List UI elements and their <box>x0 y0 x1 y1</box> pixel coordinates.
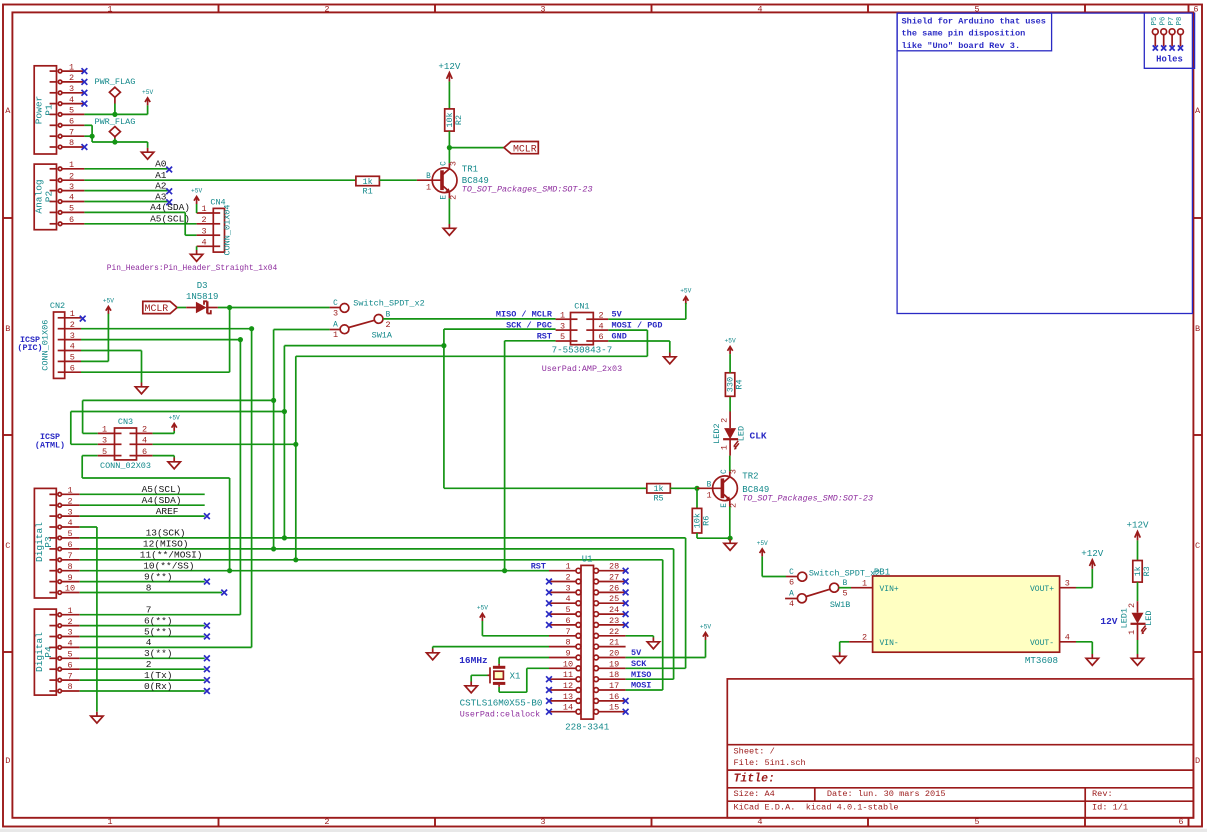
wire junction down to R6 <box>696 488 698 508</box>
wire CN2 pin4 to ground <box>81 350 142 352</box>
svg-text:5: 5 <box>560 332 565 342</box>
svg-text:CLK: CLK <box>750 430 767 441</box>
junction D3 / CN2 pin6 <box>227 305 232 310</box>
wire junction to TR1 collector <box>448 148 450 164</box>
resistor R1 <box>356 176 380 185</box>
wire A4(SDA) to CN4 pin3 <box>84 211 185 213</box>
svg-text:P6: P6 <box>1159 17 1167 25</box>
wire R1 to TR1 base <box>379 179 417 181</box>
junction CN3 pin3 / v5 <box>282 409 287 414</box>
svg-text:CONN_01X04: CONN_01X04 <box>223 204 233 255</box>
svg-text:KiCad E.D.A. kicad 4.0.1-stab: KiCad E.D.A. kicad 4.0.1-stable <box>734 803 899 813</box>
svg-text:1: 1 <box>706 491 711 501</box>
connector CN4 pins 1-4 <box>213 212 220 214</box>
svg-text:A: A <box>333 322 338 330</box>
wire CN2 pin6 to MCLR net <box>81 371 230 373</box>
power +5V (U1 pin7) <box>480 614 485 622</box>
svg-text:E: E <box>441 195 449 200</box>
wire junction to MCLR label <box>449 147 504 149</box>
junction RST vertical / U1 pin1 wire <box>502 568 507 573</box>
wire U1 pin17 MOSI up to 11(MOSI) line <box>626 689 663 691</box>
svg-text:9: 9 <box>565 649 570 659</box>
connector P3 (Digital) body <box>34 488 56 598</box>
svg-text:Date: lun. 30 mars 2015: Date: lun. 30 mars 2015 <box>827 789 946 799</box>
svg-text:Switch_SPDT_x2: Switch_SPDT_x2 <box>809 568 880 578</box>
wire TR2 emitter to ground <box>729 507 731 539</box>
svg-text:(PIC): (PIC) <box>17 343 42 353</box>
svg-text:5: 5 <box>70 353 75 363</box>
junction R2/TR1/MCLR <box>447 145 452 150</box>
no-connect X 5(**) <box>204 634 210 640</box>
wire MCLR label to D3 <box>177 307 186 309</box>
svg-text:1: 1 <box>333 330 338 340</box>
svg-text:C: C <box>441 161 449 166</box>
svg-text:2: 2 <box>142 425 147 435</box>
svg-text:D: D <box>1195 756 1200 766</box>
svg-text:R2: R2 <box>454 115 464 125</box>
power +5V (CN3) <box>172 424 177 432</box>
svg-text:5V: 5V <box>631 648 642 658</box>
svg-text:TO_SOT_Packages_SMD:SOT-23: TO_SOT_Packages_SMD:SOT-23 <box>742 493 873 503</box>
svg-text:13: 13 <box>563 692 573 702</box>
wire CN3 pin6 to ground <box>153 455 175 457</box>
power +5V (SW1B) <box>760 549 765 557</box>
svg-text:13(SCK): 13(SCK) <box>146 528 186 539</box>
svg-text:A1: A1 <box>155 170 167 181</box>
svg-text:MCLR: MCLR <box>513 143 537 154</box>
no-connect X 8 <box>221 590 227 596</box>
svg-text:+12V: +12V <box>1126 520 1149 531</box>
wire P3 pin4 to ground <box>80 526 97 528</box>
svg-text:6: 6 <box>67 540 72 550</box>
svg-text:6: 6 <box>565 616 570 626</box>
wire A1 to R1 <box>84 179 356 181</box>
svg-text:6: 6 <box>69 215 74 225</box>
note text box <box>897 13 1052 51</box>
svg-text:Shield for Arduino that uses: Shield for Arduino that uses <box>902 16 1046 26</box>
svg-text:1(Tx): 1(Tx) <box>144 670 173 681</box>
wire v2 down to P4 pin1 <box>239 340 241 615</box>
svg-text:5: 5 <box>69 106 74 116</box>
svg-text:Id: 1/1: Id: 1/1 <box>1092 803 1128 813</box>
power +5V (CN4 pin1) <box>194 197 199 205</box>
wire P4 pin4 to v3 <box>80 646 252 648</box>
junction P1 pin6/7 <box>90 134 95 139</box>
wire CN1 pin2 to +5V <box>608 318 686 320</box>
no-connect X 3(**) <box>204 655 210 661</box>
svg-text:TR2: TR2 <box>742 472 758 482</box>
svg-text:1N5819: 1N5819 <box>186 292 218 302</box>
svg-text:4: 4 <box>1065 633 1070 643</box>
svg-text:7-5530843-7: 7-5530843-7 <box>552 344 613 355</box>
resistor R3 <box>1133 561 1142 583</box>
ground (CN4) <box>190 250 202 261</box>
wire SCK junction up to CN1 pin3 <box>443 329 445 346</box>
Holes box <box>1144 13 1194 69</box>
no-connect X U1 left pins 2-6 <box>546 579 552 585</box>
connector P2 (Analog) body <box>34 164 56 230</box>
connector P4 (Digital) body <box>34 609 56 695</box>
switch SW1A pin B and lever <box>374 315 383 324</box>
wire v5 top to SCK junction <box>284 345 444 347</box>
ground (P3 pin4) <box>91 712 103 723</box>
svg-text:C: C <box>5 541 10 551</box>
wire P3 pin3 AREF <box>80 515 205 517</box>
no-connect X A0 <box>166 167 172 173</box>
connector P1 pins 1-8 <box>50 70 57 72</box>
svg-text:+12V: +12V <box>1081 548 1104 559</box>
svg-text:8: 8 <box>565 638 570 648</box>
svg-text:12: 12 <box>563 681 573 691</box>
svg-text:1: 1 <box>201 204 206 214</box>
svg-text:23: 23 <box>609 616 619 626</box>
no-connect X A3 <box>166 199 172 205</box>
connector CN2 pins 1-6 <box>58 317 65 319</box>
svg-text:U1: U1 <box>582 555 593 565</box>
svg-text:1: 1 <box>565 562 570 572</box>
svg-text:1: 1 <box>560 310 565 320</box>
wire v6 vertical MOSI net <box>295 356 297 560</box>
no-connect X P1 pins 1-4 and 8 <box>82 68 88 74</box>
resistor R5 <box>647 484 671 493</box>
wire U1 pin9 to crystal X1 top <box>499 657 549 659</box>
svg-text:3: 3 <box>448 161 458 166</box>
svg-text:A3: A3 <box>155 191 167 202</box>
PB1 pin 2 VIN- <box>849 641 873 643</box>
svg-text:A5(SCL): A5(SCL) <box>150 214 190 225</box>
svg-text:C: C <box>1195 541 1200 551</box>
svg-text:X1: X1 <box>510 672 521 682</box>
svg-text:14: 14 <box>563 703 573 713</box>
wire U1 pin7 to +5V <box>482 635 549 637</box>
wire A0 <box>84 168 167 170</box>
connector CN4 body <box>213 208 224 252</box>
svg-text:6: 6 <box>67 660 72 670</box>
svg-text:4: 4 <box>69 95 74 105</box>
wire CN2 pin2 to vertical v3 <box>81 328 252 330</box>
IC socket U1 body <box>581 565 594 719</box>
svg-text:1: 1 <box>862 578 867 588</box>
wire PB1 VOUT+ to +12V <box>1076 587 1092 589</box>
wire P1 pin6 to pin7 junction <box>84 124 92 126</box>
svg-text:18: 18 <box>609 670 619 680</box>
wire P4 pin7 <box>80 679 205 681</box>
connector CN3 pins 1-6 <box>115 432 122 434</box>
svg-text:2: 2 <box>862 633 867 643</box>
svg-text:RST: RST <box>531 562 546 572</box>
svg-text:2: 2 <box>69 73 74 83</box>
svg-text:CN3: CN3 <box>118 417 133 427</box>
svg-text:TR1: TR1 <box>462 165 478 175</box>
svg-text:CONN_02X03: CONN_02X03 <box>100 461 151 471</box>
switch SW1A pin A <box>330 329 341 331</box>
svg-text:19: 19 <box>609 659 619 669</box>
svg-text:LED1: LED1 <box>1119 608 1129 628</box>
svg-text:4: 4 <box>67 639 72 649</box>
svg-text:PWR_FLAG: PWR_FLAG <box>94 117 135 127</box>
wire +5V to SW1B pin C <box>762 576 786 578</box>
svg-text:8: 8 <box>67 682 72 692</box>
wire P3 pin2 A4(SDA) <box>80 504 205 506</box>
svg-text:MOSI / PGD: MOSI / PGD <box>612 321 663 331</box>
svg-text:1: 1 <box>69 160 74 170</box>
svg-text:2: 2 <box>69 171 74 181</box>
switch SW1A pin C <box>330 307 341 309</box>
module PB1 MT3608 body <box>873 576 1060 652</box>
svg-text:4: 4 <box>146 637 152 648</box>
power +5V (U1 pin20) <box>703 633 708 641</box>
svg-text:2: 2 <box>146 659 152 670</box>
svg-text:6: 6 <box>1178 817 1183 827</box>
svg-text:2: 2 <box>324 4 329 14</box>
svg-text:1: 1 <box>67 606 72 616</box>
svg-text:AREF: AREF <box>156 506 179 517</box>
wire U1 pin22 to ground <box>626 635 654 637</box>
wire X1 side electrode to ground <box>471 674 487 676</box>
connector CN2 body <box>54 312 65 378</box>
svg-text:4: 4 <box>70 342 75 352</box>
svg-text:2: 2 <box>720 418 730 423</box>
svg-text:8: 8 <box>67 562 72 572</box>
ground (LED1) <box>1131 654 1143 665</box>
svg-text:Title:: Title: <box>734 773 775 786</box>
svg-text:5V: 5V <box>612 310 623 320</box>
svg-text:4: 4 <box>598 321 603 331</box>
wire CN1 pin6 to ground <box>608 340 670 342</box>
LED2 diode <box>723 412 739 456</box>
wire SW1B pin B to PB1 VIN+ <box>839 587 851 589</box>
Holes pins P5-P8 <box>1152 29 1158 35</box>
svg-text:A2: A2 <box>155 180 167 191</box>
wire P4 pin5 <box>80 657 205 659</box>
wire R6 bottom to emitter junction <box>696 533 698 538</box>
crystal X1 16MHz <box>488 664 506 687</box>
svg-text:B: B <box>1195 324 1200 334</box>
svg-text:8: 8 <box>69 138 74 148</box>
svg-text:+5V: +5V <box>103 298 114 305</box>
svg-text:P5: P5 <box>1151 17 1159 25</box>
no-connect X A2 <box>166 188 172 194</box>
junction CN3 pin1 / v4 <box>271 398 276 403</box>
svg-text:C: C <box>721 469 729 474</box>
svg-text:1k: 1k <box>363 177 373 187</box>
no-connect X U1 right pins 16,15 <box>623 698 629 704</box>
no-connect X 2 <box>204 666 210 672</box>
junction CN2 pin3 / v2 <box>238 337 243 342</box>
power +5V (P1 pin5) <box>145 98 150 106</box>
svg-text:MT3608: MT3608 <box>1025 655 1058 666</box>
wire CN4 pin4 to ground <box>196 246 198 250</box>
svg-text:2: 2 <box>324 817 329 827</box>
svg-text:P7: P7 <box>1168 17 1176 25</box>
svg-text:SW1A: SW1A <box>372 330 393 340</box>
wire U1 pin20 to +5V <box>626 657 706 659</box>
svg-text:LED: LED <box>737 426 747 441</box>
svg-text:3: 3 <box>67 507 72 517</box>
wire A2 <box>84 190 167 192</box>
svg-text:16MHz: 16MHz <box>459 655 488 666</box>
no-connect X 9(**) <box>204 579 210 585</box>
wire LED2 to R4 <box>729 396 731 411</box>
wire P4 pin8 <box>80 690 205 692</box>
svg-text:11(**/MOSI): 11(**/MOSI) <box>140 550 203 561</box>
wire R5 to TR2 base junction <box>670 487 697 489</box>
svg-text:4: 4 <box>69 193 74 203</box>
junction PWR_FLAG2 <box>112 139 117 144</box>
svg-text:3: 3 <box>1065 578 1070 588</box>
svg-text:VOUT-: VOUT- <box>1030 639 1054 648</box>
wire P3 pin5 13(SCK) <box>80 537 686 539</box>
svg-text:CN1: CN1 <box>574 301 589 311</box>
svg-text:A0: A0 <box>155 159 167 170</box>
transistor TR2 BC849 <box>697 471 737 506</box>
no-connect X AREF <box>204 513 210 519</box>
wire P4 pin3 <box>80 636 205 638</box>
svg-text:1: 1 <box>107 817 112 827</box>
switch SW1B pin B and lever <box>830 583 839 592</box>
svg-text:3: 3 <box>70 331 75 341</box>
power +12V (R3) <box>1135 531 1141 540</box>
svg-text:R6: R6 <box>702 516 712 526</box>
svg-text:D: D <box>5 756 10 766</box>
title block outline <box>727 679 1193 818</box>
svg-text:24: 24 <box>609 605 619 615</box>
svg-text:4: 4 <box>201 238 206 248</box>
svg-text:C: C <box>789 569 794 577</box>
svg-text:+5V: +5V <box>680 288 691 295</box>
svg-text:1: 1 <box>426 182 431 192</box>
svg-text:2: 2 <box>385 320 390 330</box>
wire P4 pin1 to v2 <box>80 614 241 616</box>
no-connect X CN2 pin1 <box>80 316 86 322</box>
svg-text:D3: D3 <box>197 281 208 291</box>
junction v5 / 13(SCK) <box>282 535 287 540</box>
svg-text:A4(SDA): A4(SDA) <box>142 495 182 506</box>
svg-text:3(**): 3(**) <box>144 648 173 659</box>
junction R5/R6/TR2 <box>694 486 699 491</box>
svg-text:9: 9 <box>67 573 72 583</box>
svg-text:GND: GND <box>612 332 627 342</box>
svg-text:25: 25 <box>609 594 619 604</box>
svg-text:15: 15 <box>609 703 619 713</box>
svg-text:17: 17 <box>609 681 619 691</box>
svg-text:PWR_FLAG: PWR_FLAG <box>94 77 135 87</box>
svg-text:1k: 1k <box>653 484 663 494</box>
power +12V (R2) <box>447 73 453 82</box>
svg-text:A5(SCL): A5(SCL) <box>142 484 182 495</box>
wire v6 top to CN1 pin4 <box>296 355 648 357</box>
junction CN2 pin2 / v3 <box>249 326 254 331</box>
junction TR2 emitter / R6 <box>728 536 733 541</box>
svg-text:RST: RST <box>537 332 552 342</box>
wire R2 to junction <box>448 131 450 148</box>
ground (CN2) <box>135 383 147 394</box>
wire P3 pin7 11(MOSI) <box>80 559 663 561</box>
svg-text:A: A <box>789 591 794 599</box>
wire P4 pin6 <box>80 668 205 670</box>
svg-text:28: 28 <box>609 562 619 572</box>
global label MCLR (D3) <box>143 301 177 313</box>
svg-text:4: 4 <box>565 594 570 604</box>
svg-text:2: 2 <box>67 617 72 627</box>
svg-text:5: 5 <box>102 447 107 457</box>
note large rectangle <box>897 13 1192 313</box>
ground (PB1 VOUT-) <box>1086 654 1098 665</box>
junction v6 / 11(MOSI) <box>293 557 298 562</box>
svg-text:6: 6 <box>142 447 147 457</box>
svg-text:+5V: +5V <box>725 338 736 345</box>
svg-text:7: 7 <box>67 551 72 561</box>
svg-text:16: 16 <box>609 692 619 702</box>
diode D3 1N5819 schottky <box>186 301 218 313</box>
svg-text:A: A <box>5 106 11 116</box>
wire P3 pin9 <box>80 581 205 583</box>
wire U1 pin8 to ground <box>433 646 549 648</box>
wire CN3 pin3 to SCK net v5 <box>71 443 98 445</box>
junction CN3 pin4 / v6 <box>293 442 298 447</box>
svg-text:22: 22 <box>609 627 619 637</box>
svg-text:12(MISO): 12(MISO) <box>143 539 189 550</box>
svg-text:3: 3 <box>560 321 565 331</box>
svg-text:3: 3 <box>102 436 107 446</box>
svg-text:3: 3 <box>201 226 206 236</box>
svg-text:UserPad:AMP_2x03: UserPad:AMP_2x03 <box>542 364 622 374</box>
PWR_FLAG 1 <box>109 87 120 103</box>
svg-text:6: 6 <box>69 117 74 127</box>
ground (CN1) <box>664 353 676 364</box>
svg-text:P2: P2 <box>44 191 55 203</box>
svg-text:0(Rx): 0(Rx) <box>144 681 173 692</box>
svg-text:20: 20 <box>609 649 619 659</box>
svg-text:B: B <box>707 481 712 489</box>
svg-text:27: 27 <box>609 573 619 583</box>
connector CN1 pins 1-6 <box>571 318 578 320</box>
connector P3 pins 1-10 <box>49 493 56 495</box>
wire P3 pin1 A5(SCL) <box>80 493 205 495</box>
svg-text:+12V: +12V <box>438 61 461 72</box>
svg-text:7: 7 <box>67 671 72 681</box>
wire P3 pin8 10(SS) RST to U1 pin1 <box>80 570 549 572</box>
svg-text:4: 4 <box>142 436 147 446</box>
svg-text:like "Uno" board Rev 3.: like "Uno" board Rev 3. <box>902 41 1021 51</box>
svg-text:1: 1 <box>102 425 107 435</box>
wire CN2 pin3 to vertical v2 <box>81 339 240 341</box>
wire PB1 VOUT- to ground <box>1076 641 1092 643</box>
wire U1 pin19 SCK up to 13(SCK) line <box>626 667 686 669</box>
connector P1 (Power) body <box>34 66 56 154</box>
svg-text:+5V: +5V <box>757 540 768 547</box>
svg-text:(ATML): (ATML) <box>35 441 65 451</box>
wire CN3 pin2 to +5V <box>153 432 175 434</box>
svg-text:B: B <box>426 173 431 181</box>
svg-text:21: 21 <box>609 638 619 648</box>
svg-text:the same pin disposition: the same pin disposition <box>902 29 1026 39</box>
svg-text:SCK: SCK <box>631 659 647 669</box>
junction v4 / 12(MISO) <box>271 546 276 551</box>
LED1 diode <box>1131 601 1147 640</box>
svg-text:1: 1 <box>70 309 75 319</box>
svg-text:1: 1 <box>720 445 730 450</box>
wire CN3 pin4 to MOSI net v6 <box>153 443 296 445</box>
svg-text:R3: R3 <box>1142 566 1152 576</box>
wire R3 to LED1 <box>1137 582 1139 601</box>
ground (P1) <box>141 148 153 159</box>
svg-text:5: 5 <box>67 529 72 539</box>
wire PB1 VIN- to ground <box>840 641 849 643</box>
svg-text:5: 5 <box>565 605 570 615</box>
svg-text:1: 1 <box>67 486 72 496</box>
junction v1b / 10(SS) <box>227 568 232 573</box>
